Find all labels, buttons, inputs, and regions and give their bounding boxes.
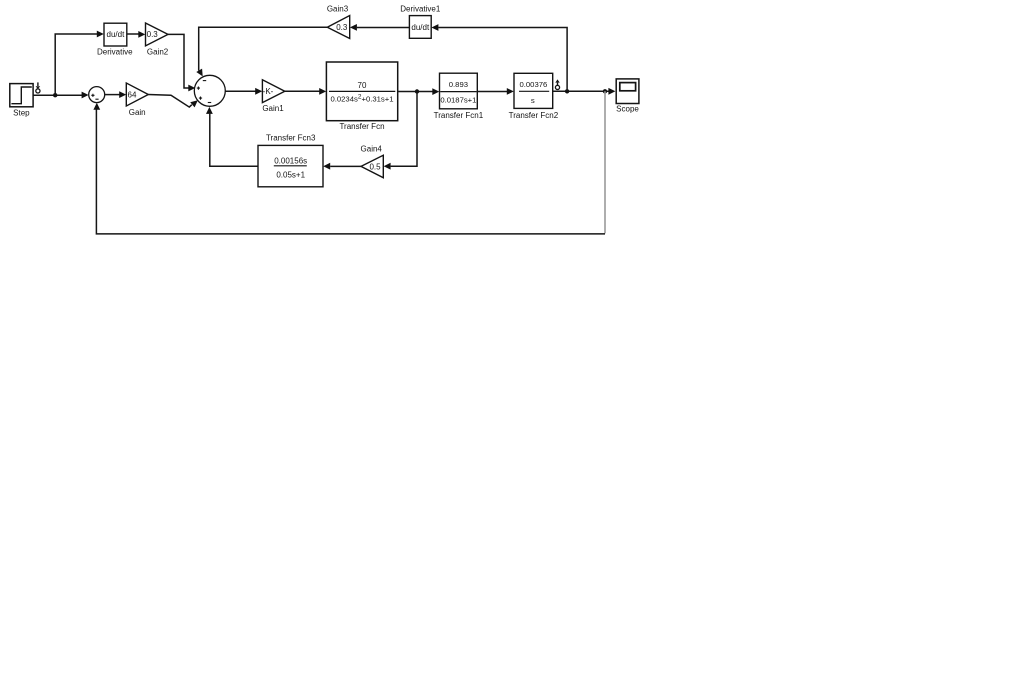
gain Gain4 (left pointing) xyxy=(361,155,383,178)
svg-text:0.5: 0.5 xyxy=(369,162,381,171)
sum Sum2 xyxy=(194,75,225,106)
arrow into Transfer Fcn xyxy=(319,88,326,95)
svg-text:Transfer Fcn: Transfer Fcn xyxy=(339,122,384,131)
arrow into Sum1 xyxy=(82,92,89,99)
svg-text:-K-: -K- xyxy=(263,87,274,96)
Derivative1 block xyxy=(409,16,431,39)
junction dot to feedback branch xyxy=(603,89,607,93)
wire branch up to Derivative xyxy=(55,34,97,95)
wire TransferFcn3 to Sum2 bottom xyxy=(210,114,259,167)
sum Sum1 xyxy=(89,87,105,103)
svg-text:0.893: 0.893 xyxy=(449,80,468,89)
svg-text:0.0234s2+0.31s+1: 0.0234s2+0.31s+1 xyxy=(330,93,393,103)
svg-text:Transfer Fcn2: Transfer Fcn2 xyxy=(509,111,559,120)
svg-text:du/dt: du/dt xyxy=(107,30,126,39)
transfer function Transfer Fcn xyxy=(326,62,397,121)
gray feedback wire down from output junction xyxy=(604,91,606,233)
wire Transfer Fcn2 to Scope xyxy=(553,90,609,92)
arrow into Sum2 bottom minus xyxy=(206,107,213,114)
signal logging badge near Transfer Fcn2 xyxy=(555,79,559,89)
arrow into Sum2 plus upper xyxy=(188,85,195,92)
svg-text:64: 64 xyxy=(128,91,137,100)
arrow into Gain4 xyxy=(384,163,391,170)
gain Gain (64) xyxy=(126,83,148,106)
signal logging badge near Step xyxy=(36,82,41,93)
gain Gain1 xyxy=(262,80,284,103)
svg-text:Gain4: Gain4 xyxy=(361,145,383,154)
svg-text:s: s xyxy=(531,96,535,105)
transfer function Transfer Fcn3 xyxy=(258,145,323,186)
junction dot at Step branch xyxy=(53,93,57,97)
junction dot to Derivative1 branch xyxy=(565,89,569,93)
wire Transfer Fcn1 to Transfer Fcn2 xyxy=(477,91,507,93)
svg-text:0.3: 0.3 xyxy=(336,23,348,32)
Step block xyxy=(10,84,33,107)
junction dot after Transfer Fcn xyxy=(415,89,419,93)
bottom feedback wire xyxy=(96,109,605,234)
svg-text:Transfer Fcn1: Transfer Fcn1 xyxy=(434,111,484,120)
wire Gain4 to Transfer Fcn3 xyxy=(330,165,361,167)
wire Gain2 to Sum2 upper-left port xyxy=(168,34,189,88)
wire Gain1 to Transfer Fcn xyxy=(285,90,320,92)
transfer function Transfer Fcn2 xyxy=(514,73,553,108)
wire Derivative1 to Gain3 xyxy=(357,27,410,29)
Derivative block xyxy=(104,23,127,46)
svg-text:Gain: Gain xyxy=(129,108,146,117)
wire Gain to Sum2 lower-left port xyxy=(148,95,192,108)
svg-text:du/dt: du/dt xyxy=(411,23,430,32)
svg-text:Derivative1: Derivative1 xyxy=(400,5,441,14)
svg-text:0.00156s: 0.00156s xyxy=(274,157,307,166)
arrow into Gain3 xyxy=(350,24,357,31)
svg-text:70: 70 xyxy=(358,81,367,90)
arrow into Sum2 plus lower xyxy=(190,100,198,107)
wire Step output to Sum1 xyxy=(33,94,82,96)
arrow into Transfer Fcn3 xyxy=(323,163,330,170)
svg-text:0.05s+1: 0.05s+1 xyxy=(276,170,305,179)
svg-text:Gain3: Gain3 xyxy=(327,5,349,14)
arrow into Transfer Fcn2 xyxy=(507,88,514,95)
arrow into Sum2 top minus xyxy=(196,69,202,77)
arrow into Sum1 bottom minus xyxy=(93,103,100,110)
wire Gain3 line down into Sum2 top xyxy=(199,27,328,70)
wire branch up to Derivative1 xyxy=(438,28,567,92)
transfer function Transfer Fcn1 xyxy=(440,73,478,109)
arrow into Gain xyxy=(119,91,126,98)
svg-text:Scope: Scope xyxy=(616,105,639,114)
arrow into Scope xyxy=(608,88,615,95)
arrow into Transfer Fcn1 xyxy=(432,88,439,95)
wire Derivative to Gain2 xyxy=(127,33,139,35)
wire Transfer Fcn output to Transfer Fcn1 xyxy=(398,91,433,93)
svg-text:Step: Step xyxy=(13,109,30,118)
gain Gain3 (left pointing) xyxy=(327,16,349,39)
arrow into Gain1 xyxy=(255,88,262,95)
wire Sum1 to Gain xyxy=(105,94,120,96)
arrow into Derivative xyxy=(97,31,104,38)
svg-text:0.00376: 0.00376 xyxy=(520,80,548,89)
svg-text:Transfer Fcn3: Transfer Fcn3 xyxy=(266,134,316,143)
gain Gain2 xyxy=(146,23,169,46)
wire branch down to Gain4 xyxy=(391,92,417,167)
svg-text:Gain2: Gain2 xyxy=(147,47,169,56)
arrow into Derivative1 xyxy=(431,24,438,31)
svg-text:Derivative: Derivative xyxy=(97,47,133,56)
svg-text:0.0187s+1: 0.0187s+1 xyxy=(440,95,476,104)
wire Sum2 output to Gain1 xyxy=(225,90,255,92)
Scope block xyxy=(616,79,639,104)
svg-text:Gain1: Gain1 xyxy=(262,104,284,113)
svg-text:0.3: 0.3 xyxy=(147,30,159,39)
arrow into Gain2 xyxy=(138,31,145,38)
